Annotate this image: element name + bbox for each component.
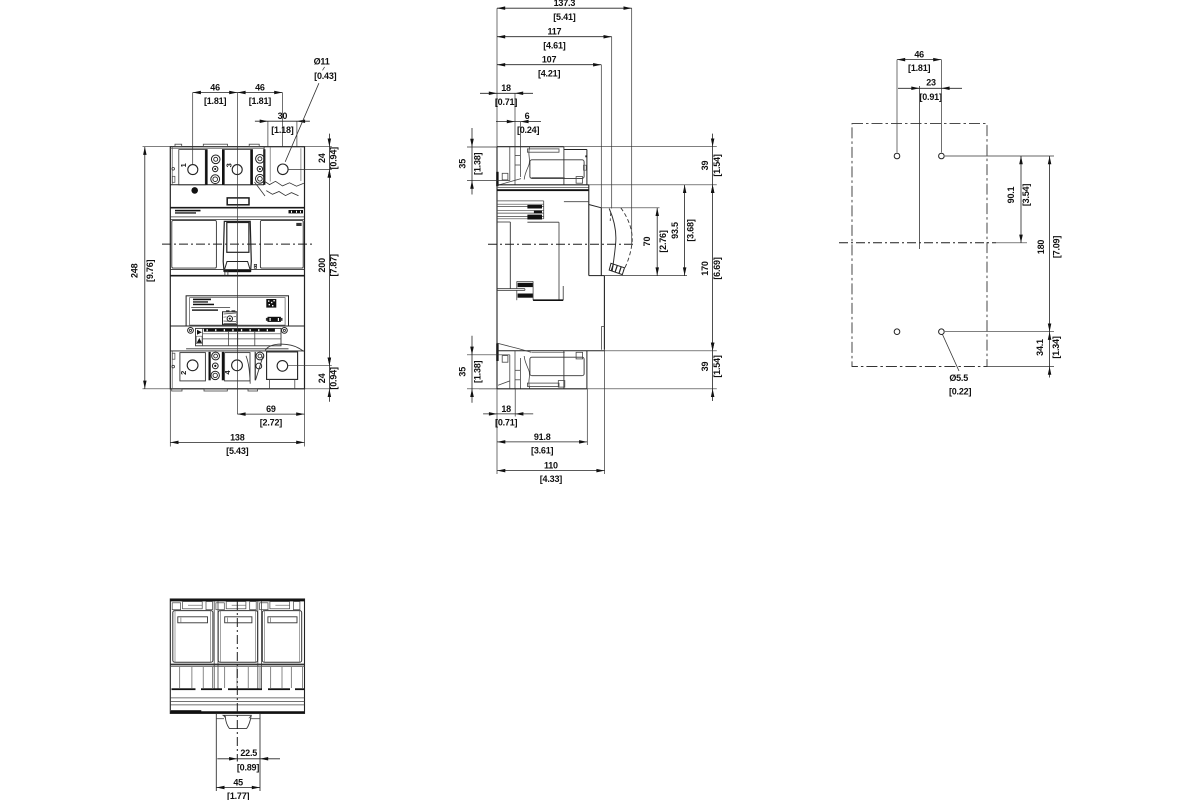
- settings left column triangles: [202, 328, 204, 345]
- DIN tab trapezoid: [223, 715, 251, 728]
- body line above bottom terminals: [170, 350, 304, 352]
- svg-text:91.8: 91.8: [534, 432, 551, 442]
- svg-text:[5.43]: [5.43]: [226, 446, 249, 456]
- upper laminated stack lines: [497, 200, 544, 202]
- thick band under bracket: [497, 189, 589, 191]
- bracket small right rect top: [576, 177, 583, 184]
- svg-text:[0.24]: [0.24]: [517, 125, 540, 135]
- svg-text:[3.61]: [3.61]: [531, 446, 554, 456]
- terminal cavity bottom view pole 2: [218, 611, 257, 663]
- bracket molded curve top: [524, 147, 530, 180]
- dimension 6: [496, 121, 541, 123]
- svg-text:6: 6: [525, 111, 530, 121]
- terminal cavity pole 1: [179, 150, 206, 185]
- dimension 248 left: [144, 147, 146, 389]
- lower stack black band 1: [518, 283, 534, 287]
- svg-text:[1.81]: [1.81]: [204, 96, 227, 106]
- svg-text:23: 23: [926, 78, 936, 88]
- bottom terminal cavity pole 4: [225, 353, 250, 381]
- svg-text:[1.81]: [1.81]: [249, 96, 272, 106]
- handle tab below grip: [225, 271, 228, 275]
- svg-text:[1.34]: [1.34]: [1051, 336, 1061, 359]
- bracket ladder verticals top: [509, 147, 511, 181]
- bracket line extension right: [589, 184, 717, 186]
- bottom view centerline dash-dot: [236, 601, 238, 762]
- lower laminated stack lines: [517, 280, 533, 282]
- dimension 117: [497, 36, 612, 38]
- bracket small left rect top: [502, 173, 508, 180]
- svg-text:[1.54]: [1.54]: [712, 154, 722, 177]
- dimension 137.3: [497, 7, 632, 9]
- terminal circle pole 1: [188, 165, 198, 175]
- DIN tab steps: [216, 718, 224, 720]
- dimension 180: [1049, 156, 1051, 332]
- dimension 24 top right: [328, 134, 330, 147]
- leader from strap hole to right: [288, 168, 332, 170]
- svg-text:34.1: 34.1: [1035, 339, 1045, 356]
- svg-text:[2.72]: [2.72]: [260, 418, 283, 428]
- dimension 91.8: [497, 441, 587, 443]
- front view body outline: [170, 147, 304, 389]
- side view bottom edge: [497, 388, 587, 390]
- svg-text:[1.77]: [1.77]: [227, 791, 250, 800]
- svg-text:[0.94]: [0.94]: [328, 147, 338, 170]
- hole row extension right bottom: [945, 331, 1054, 333]
- torn barrier diagonal: [255, 182, 266, 196]
- body line under rating plate: [170, 325, 304, 327]
- svg-text:46: 46: [255, 82, 265, 92]
- dimension 18 top: [480, 92, 533, 94]
- 3VA2 label bar: [289, 210, 304, 213]
- top boxes row: [172, 603, 180, 610]
- bottom clamp column 2 with torn diagonal: [254, 352, 256, 380]
- front view left edge screw detail bottom: [172, 365, 175, 368]
- dimension 34.1: [1049, 332, 1051, 378]
- rating plate inner: [190, 298, 286, 326]
- dimension 30 strap width: [255, 120, 310, 122]
- bracket right tab top: [583, 165, 586, 170]
- front case vertical: [588, 185, 590, 276]
- small square right of handle: [254, 264, 256, 268]
- side view top edge: [497, 146, 564, 148]
- stack step lines: [497, 221, 511, 223]
- drill plan horizontal centerline: [839, 242, 996, 244]
- svg-text:46: 46: [210, 82, 220, 92]
- extension lines 138 and 69: [169, 389, 171, 447]
- svg-text:24: 24: [317, 153, 327, 163]
- pad hole circle: [277, 361, 288, 372]
- terminal circle pole 4: [232, 360, 243, 371]
- handle grip hatched: [609, 263, 624, 274]
- extension line bottom right 24: [305, 388, 332, 390]
- side top edge extension right: [564, 146, 717, 148]
- svg-text:[5.41]: [5.41]: [553, 12, 576, 22]
- svg-text:[0.71]: [0.71]: [495, 418, 518, 428]
- bezel bottom line: [589, 275, 605, 277]
- lower front face vertical: [603, 276, 605, 350]
- strap torn bottom edge: [264, 181, 304, 186]
- bezel top slant: [589, 205, 602, 208]
- svg-text:200: 200: [317, 258, 327, 273]
- drill plan vertical centerline: [919, 86, 921, 249]
- dimension 138: [170, 441, 304, 443]
- bracket ladder rungs top: [515, 155, 520, 157]
- side bracket right edge: [586, 150, 588, 185]
- svg-text:46: 46: [914, 50, 924, 60]
- svg-text:39: 39: [700, 362, 710, 372]
- dimension 46 second pole spacing: [237, 92, 282, 94]
- svg-text:[0.89]: [0.89]: [237, 762, 260, 772]
- dimension 110: [497, 470, 604, 472]
- svg-text:[0.22]: [0.22]: [949, 387, 972, 397]
- diameter 5.5 leader: [943, 335, 960, 372]
- lower bracket bottom small rect: [558, 381, 565, 388]
- lower stack black band 2: [518, 294, 534, 298]
- bracket inner rounded rect top: [530, 160, 584, 179]
- dimension 22.5: [217, 758, 280, 760]
- bracket inner step line bottom: [531, 351, 564, 353]
- settings vertical dividers: [227, 332, 229, 346]
- svg-text:[0.91]: [0.91]: [919, 92, 942, 102]
- bottom view group: [170, 599, 304, 800]
- clamp column 2 top: [251, 149, 253, 185]
- extension line top right 24: [305, 146, 332, 148]
- strap width extension lines: [267, 121, 269, 147]
- svg-text:39: 39: [700, 161, 710, 171]
- mounting hole top right: [939, 153, 945, 159]
- rect bottom extension right: [987, 366, 1054, 368]
- pole 5 extension line right: [281, 93, 283, 147]
- bezel bottom extension to dims: [604, 275, 687, 277]
- handle dashed inner segment: [609, 213, 611, 221]
- front view bottom edge tabs: [172, 389, 182, 391]
- mounting hole bottom right: [939, 329, 945, 335]
- svg-text:110: 110: [544, 461, 558, 471]
- pole divider right pair: [257, 601, 259, 688]
- dimension 39 bottom right: [711, 343, 715, 351]
- dimension 69: [237, 413, 304, 415]
- side bracket right top edge: [564, 149, 587, 151]
- hole row extension right top: [945, 155, 1054, 157]
- bracket ladder verticals bottom: [509, 355, 511, 389]
- svg-text:[2.76]: [2.76]: [658, 230, 668, 253]
- connector icon: [268, 317, 281, 322]
- svg-text:2: 2: [179, 371, 188, 375]
- svg-text:30: 30: [278, 111, 288, 121]
- bottom right pad rect: [267, 352, 298, 380]
- svg-text:69: 69: [266, 404, 276, 414]
- svg-text:[0.71]: [0.71]: [495, 97, 518, 107]
- svg-text:[7.87]: [7.87]: [328, 254, 338, 277]
- pole divider left pair: [213, 601, 215, 688]
- lower body step line: [497, 350, 605, 352]
- lower stack bottom thick line: [533, 299, 563, 301]
- bottom view top edge thick: [170, 599, 304, 601]
- terminal cavity bottom view pole 1: [173, 611, 213, 663]
- svg-text:70: 70: [642, 237, 652, 247]
- svg-text:[3.68]: [3.68]: [686, 219, 696, 242]
- svg-text:Ø11: Ø11: [314, 56, 330, 66]
- svg-text:45: 45: [233, 777, 243, 787]
- svg-text:35: 35: [458, 367, 468, 377]
- case internal step line: [564, 201, 589, 203]
- bracket bottom line: [497, 184, 589, 186]
- handle outer shape: [223, 221, 251, 271]
- dimension 23 drill: [898, 87, 962, 89]
- left 35 extension lines bottom: [467, 354, 510, 356]
- svg-text:170: 170: [700, 261, 710, 276]
- svg-text:93.5: 93.5: [670, 222, 680, 239]
- DIN tab corner notches: [223, 715, 226, 718]
- extension verticals below side view: [496, 389, 498, 474]
- svg-text:90.1: 90.1: [1006, 186, 1016, 203]
- handle grip trapezoid: [224, 262, 251, 272]
- torn S curve right of pole 4: [246, 356, 250, 384]
- extension verticals above side view: [496, 8, 498, 147]
- dimension 35 bottom left: [471, 336, 473, 403]
- lower bracket front verticals: [563, 351, 565, 389]
- svg-text:1: 1: [179, 163, 188, 167]
- escutcheon bottom lines: [170, 268, 304, 270]
- handle recess right panel: [260, 220, 303, 268]
- svg-text:18: 18: [501, 83, 511, 93]
- diameter 11 leader line: [285, 83, 319, 162]
- dimension 24 bottom right: [328, 358, 332, 366]
- dimension 70: [656, 208, 658, 276]
- svg-text:[4.61]: [4.61]: [543, 40, 566, 50]
- lower front inner line: [600, 327, 602, 350]
- clamp column 1 top: [205, 149, 207, 185]
- escutcheon band lines: [170, 216, 304, 218]
- terminal strap right pole: [263, 147, 265, 181]
- window rectangle above handle: [227, 198, 249, 205]
- case split verticals: [558, 222, 560, 300]
- lower bracket wavy top: [498, 343, 532, 352]
- svg-text:180: 180: [1036, 240, 1046, 255]
- vent cell row: [170, 666, 304, 668]
- svg-text:35: 35: [458, 159, 468, 169]
- svg-text:[1.54]: [1.54]: [712, 355, 722, 378]
- drilling plan dash-dot outline: [852, 124, 987, 367]
- svg-text:[1.18]: [1.18]: [271, 125, 294, 135]
- svg-text:[6.69]: [6.69]: [712, 257, 722, 280]
- front view top terminal zone bottom line: [170, 184, 264, 186]
- svg-text:[4.33]: [4.33]: [540, 474, 563, 484]
- svg-text:3: 3: [225, 163, 234, 167]
- svg-text:[0.43]: [0.43]: [314, 71, 337, 81]
- mounting hole top left: [894, 153, 900, 159]
- side view group: [458, 0, 722, 484]
- dimension 200 right: [328, 147, 330, 402]
- bottom clamp column 1: [209, 352, 211, 380]
- bracket molded curve bottom: [524, 356, 530, 389]
- bracket diagonal top: [498, 179, 522, 186]
- bracket small left rect bottom: [502, 356, 508, 363]
- cavity slot pole 1: [178, 617, 208, 623]
- dimension 35 top left: [471, 128, 473, 195]
- CE mark: [296, 223, 301, 226]
- hole extension verticals: [896, 60, 898, 153]
- bottom view outline: [170, 599, 304, 713]
- terminal cavity bottom view pole 3: [262, 611, 301, 663]
- front view horizontal centerline dash-dot: [162, 243, 312, 245]
- left mount pad bottom dark: [496, 343, 498, 361]
- lower stack bar to left edge: [497, 288, 525, 290]
- mounting hole bottom left: [894, 329, 900, 335]
- dimension 46 drill: [897, 59, 941, 61]
- dark dashed line under vent row: [172, 688, 196, 690]
- dimension 170 right: [711, 185, 715, 193]
- rating dial: [223, 312, 238, 325]
- rating plate text bars: [193, 299, 211, 301]
- svg-text:[4.21]: [4.21]: [538, 68, 561, 78]
- front view group: [130, 56, 339, 456]
- svg-text:Ø5.5: Ø5.5: [949, 373, 968, 383]
- left mount pad top dark: [496, 172, 498, 186]
- pole 1 extension line: [192, 93, 194, 165]
- handle grip dark band: [224, 270, 251, 272]
- svg-text:[7.09]: [7.09]: [1052, 236, 1062, 259]
- mid grey band line: [170, 664, 304, 666]
- svg-text:138: 138: [230, 432, 245, 442]
- leader from pad hole to right: [288, 365, 332, 367]
- test button dot: [191, 187, 198, 194]
- centerline extension right: [996, 242, 1027, 244]
- svg-text:107: 107: [542, 55, 557, 65]
- dimension 18 bottom: [483, 413, 533, 415]
- DIN rail tab sides extended: [215, 713, 217, 791]
- svg-text:248: 248: [130, 263, 140, 278]
- bracket bottom rect band: [527, 383, 559, 386]
- front view left edge screw detail top: [172, 168, 175, 171]
- thin line under bracket: [497, 187, 589, 189]
- terminal circle pole 3: [232, 165, 242, 175]
- bezel top extension to 70 dim: [601, 207, 659, 209]
- rating plate divider line: [191, 307, 230, 309]
- settings horizontal lines: [203, 333, 281, 335]
- upper stack black bands: [527, 205, 542, 209]
- lower stack verticals: [516, 281, 518, 288]
- settings zone rect: [196, 328, 282, 345]
- settings recess bottom line: [186, 348, 288, 350]
- svg-text:[1.38]: [1.38]: [473, 360, 483, 383]
- right plate screw: [282, 328, 288, 334]
- svg-text:24: 24: [317, 373, 327, 383]
- front view left edge inner line: [171, 147, 173, 185]
- terminal circle pole 2: [187, 360, 198, 371]
- svg-text:22.5: 22.5: [240, 748, 257, 758]
- dimension 45: [216, 787, 260, 789]
- svg-text:[1.81]: [1.81]: [908, 63, 931, 73]
- bottom terminal cavity pole 2: [180, 353, 206, 381]
- svg-text:[0.94]: [0.94]: [328, 367, 338, 390]
- handle recess left panel: [172, 220, 217, 268]
- bottom thick black segment: [171, 710, 201, 712]
- bracket small right rect bottom: [576, 352, 583, 359]
- bracket ladder rungs bottom: [515, 369, 520, 371]
- dimension 39 top right: [712, 134, 714, 401]
- lower thin lines: [170, 697, 304, 699]
- cavity slot pole 2: [225, 617, 252, 623]
- drilling plan group: [839, 50, 1062, 397]
- handle dashed arc: [621, 208, 632, 271]
- dimension 93.5: [684, 185, 686, 276]
- bracket inner step line top: [531, 176, 564, 178]
- side bottom edge extensions: [479, 388, 497, 390]
- left nameplate text bars: [175, 210, 201, 212]
- terminal cavity pole 3: [224, 150, 250, 185]
- bracket diagonal bottom: [498, 381, 509, 385]
- settings dark band with ticks: [204, 329, 275, 332]
- bottom edge thick line: [170, 711, 304, 713]
- svg-text:137.3: 137.3: [554, 0, 576, 8]
- cavity slot pole 3: [268, 617, 297, 623]
- lower step extension right: [604, 350, 716, 352]
- rating plate second text bar: [192, 309, 218, 310]
- side view centerline dash-dot: [488, 243, 634, 245]
- svg-text:[3.54]: [3.54]: [1021, 184, 1031, 207]
- escutcheon top line: [170, 207, 304, 209]
- svg-text:[9.76]: [9.76]: [145, 259, 155, 282]
- extension lines left 248: [143, 146, 171, 148]
- front view vertical pole centerline: [236, 93, 238, 415]
- front view top edge tabs: [175, 144, 182, 147]
- rating plate recess: [186, 296, 288, 326]
- pad feet: [269, 379, 271, 388]
- bottom right pad arch: [265, 344, 303, 351]
- handle solid arc: [609, 209, 616, 272]
- front view inner top line: [170, 147, 264, 149]
- dimension 107: [497, 64, 601, 66]
- side bracket front vertical: [563, 147, 565, 185]
- bracket top rect band: [527, 149, 559, 152]
- strap hole circle: [278, 164, 289, 175]
- side view left edge: [496, 147, 498, 342]
- left 35 extension lines top: [467, 146, 497, 148]
- svg-text:18: 18: [501, 404, 511, 414]
- bracket inner rounded rect bottom: [530, 357, 584, 376]
- left plate screw: [188, 328, 194, 334]
- data matrix code: [266, 299, 276, 308]
- svg-text:117: 117: [547, 27, 561, 37]
- dimension 46 first pole spacing: [193, 92, 238, 94]
- dimension 90.1: [1020, 156, 1022, 243]
- bezel front vertical: [600, 208, 602, 276]
- handle inner channel: [227, 223, 249, 253]
- svg-text:[1.38]: [1.38]: [473, 152, 483, 175]
